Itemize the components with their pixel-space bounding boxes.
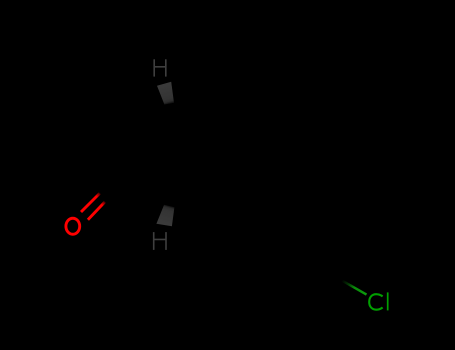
hidden carbon skeleton: bond C1-C5 (ring fusion edge) — [168, 104, 171, 206]
hidden bond C6-aryl (to para carbon of chlorophenyl ring) — [211, 155, 252, 206]
hidden black half of C-Cl bond near ring carbon — [316, 265, 348, 283]
atom label H (top stereocenter) — [154, 59, 166, 76]
wedge bond C5-H (bold wedge, dark grey, to bottom stereocenter H) — [156, 205, 174, 226]
hidden carbon skeleton: bond C2-C3 — [88, 140, 132, 168]
hidden carbon skeleton: bond C4-C1 — [108, 88, 169, 104]
hidden carbon skeleton: bond C3-C4 — [88, 88, 108, 140]
hidden carbon skeleton: C2=O double bond black halves near C2 — [100, 179, 115, 194]
atom label H (bottom stereocenter) — [154, 232, 166, 250]
hidden aromatic inner double-bond lines — [262, 258, 305, 283]
bond C-Cl (green half near Cl, fading from black) — [342, 281, 367, 295]
hidden benzene ring of 4-chlorophenyl group — [211, 176, 315, 296]
hidden carbon skeleton: bond C5-C6 (cyclopropane) — [169, 155, 252, 206]
atom label O (ketone oxygen, red) — [66, 218, 80, 234]
atom label Cl : letter l (green) — [387, 292, 389, 310]
hidden carbon skeleton: bond C1-C6 (cyclopropane) — [169, 104, 252, 155]
wedge bond C1-H (bold wedge, dark grey, to top stereocenter H) — [157, 82, 174, 105]
atom label Cl : letter C (green) — [369, 294, 382, 310]
hidden carbon skeleton: bond C5-C2 (to carbonyl carbon) — [132, 168, 169, 206]
carbonyl double bond C2=O (red halves near O) — [81, 193, 100, 212]
